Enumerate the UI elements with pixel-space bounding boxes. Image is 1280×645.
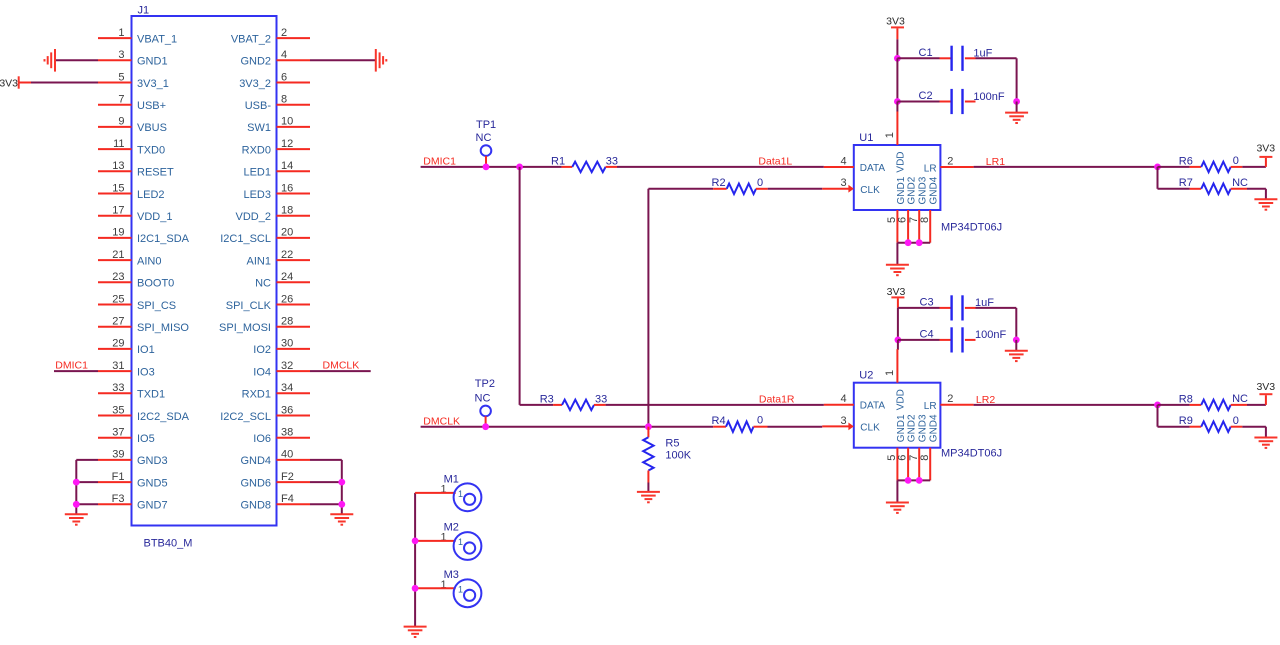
wire left ground vertical — [75, 460, 77, 514]
ground (right of C4) — [1005, 350, 1028, 352]
svg-text:24: 24 — [281, 271, 293, 283]
J1 pin 28 (SPI_MOSI) — [277, 326, 311, 328]
wire C3/C4 right vertical — [1015, 308, 1017, 340]
junction (LR2 branch) — [1154, 402, 1161, 409]
J1 pin 8 (USB-) — [277, 104, 311, 106]
svg-text:1: 1 — [884, 370, 896, 376]
svg-text:35: 35 — [112, 404, 124, 416]
svg-text:VDD: VDD — [895, 151, 906, 172]
svg-text:VDD_2: VDD_2 — [236, 211, 271, 223]
wire DMIC1 branch vertical — [519, 167, 521, 405]
wire C2 junction to ground — [1016, 102, 1018, 113]
J1 pin 1 (VBAT_1) — [98, 37, 132, 39]
svg-text:33: 33 — [595, 393, 607, 405]
svg-text:BTB40_M: BTB40_M — [144, 538, 193, 550]
J1 pin 13 (RESET) — [98, 170, 132, 172]
U1 pin 6 (GND2) stub — [907, 210, 909, 243]
junction (M3) — [412, 585, 419, 592]
svg-text:3V3: 3V3 — [1256, 143, 1275, 155]
svg-text:MP34DT06J: MP34DT06J — [941, 221, 1002, 233]
svg-text:0: 0 — [1233, 415, 1239, 427]
svg-text:NC: NC — [255, 278, 271, 290]
junction (LR1 branch) — [1154, 164, 1161, 171]
U1 pin 4 (DATA) stub — [824, 166, 854, 168]
svg-text:R8: R8 — [1179, 393, 1193, 405]
svg-text:GND2: GND2 — [907, 176, 918, 204]
U1 pin 7 (GND3) stub — [918, 210, 920, 243]
svg-text:DMIC1: DMIC1 — [55, 360, 88, 372]
svg-text:3V3: 3V3 — [886, 15, 905, 27]
svg-text:Data1R: Data1R — [759, 394, 795, 406]
junction (C1 row) — [894, 55, 901, 62]
wire LR1 branch down — [1157, 167, 1159, 189]
wire R3 to U2 DATA — [606, 404, 824, 406]
svg-text:3: 3 — [118, 49, 124, 61]
svg-text:GND1: GND1 — [137, 56, 168, 68]
wire GND7 row to left vertical — [76, 503, 98, 505]
junction (M2) — [412, 538, 419, 545]
svg-text:32: 32 — [281, 360, 293, 372]
J1 pin 24 (NC) — [277, 281, 311, 283]
U2 pin 5 (GND1) stub — [896, 448, 898, 481]
svg-text:16: 16 — [281, 182, 293, 194]
wire U2 ground bus — [897, 479, 930, 481]
svg-text:4: 4 — [840, 393, 846, 405]
svg-text:RXD0: RXD0 — [242, 144, 271, 156]
svg-text:TXD1: TXD1 — [137, 389, 165, 401]
svg-text:AIN1: AIN1 — [247, 255, 271, 267]
svg-text:37: 37 — [112, 427, 124, 439]
svg-text:3: 3 — [840, 415, 846, 427]
svg-text:USB+: USB+ — [137, 100, 166, 112]
svg-text:DMCLK: DMCLK — [323, 360, 360, 372]
svg-text:C2: C2 — [919, 90, 933, 102]
wire C4 row to U2 VDD — [897, 340, 899, 350]
svg-text:40: 40 — [281, 449, 293, 461]
wire 3V3 down to C1 row — [896, 39, 898, 58]
junction (C2 right) — [1013, 98, 1020, 105]
svg-text:36: 36 — [281, 404, 293, 416]
junction (DMIC1 branch) — [516, 164, 523, 171]
wire R2 to U1 CLK — [768, 188, 823, 190]
junction (GND6 row right) — [338, 479, 345, 486]
junction (GND5 row left) — [73, 479, 80, 486]
J1 pin 29 (IO1) — [98, 348, 132, 350]
svg-text:100K: 100K — [665, 450, 691, 462]
J1 pin 4 (GND2) — [277, 59, 311, 61]
wire GND8 row to right vertical — [310, 503, 342, 505]
J1 pin F2 (GND6) — [277, 481, 311, 483]
J1 pin 14 (LED1) — [277, 170, 311, 172]
wire C3 right to corner — [976, 307, 1017, 309]
J1 pin 30 (IO2) — [277, 348, 311, 350]
ground (right of C2) — [1005, 112, 1028, 114]
U1 pin 3 (CLK) stub with input arrow — [822, 188, 850, 190]
svg-text:8: 8 — [281, 94, 287, 106]
svg-text:C4: C4 — [920, 328, 934, 340]
wire C1 row to C2 row (left) — [896, 58, 898, 101]
J1 pin 36 (I2C2_SCL) — [277, 415, 311, 417]
svg-text:100nF: 100nF — [975, 329, 1006, 341]
wire R5 to ground — [647, 483, 649, 492]
svg-text:GND1: GND1 — [896, 176, 907, 204]
svg-text:15: 15 — [112, 182, 124, 194]
wire DMCLK stub at J1 pin32 — [310, 370, 371, 372]
J1 pin 20 (I2C1_SCL) — [277, 237, 311, 239]
ground (right of J1) — [375, 49, 377, 72]
J1 pin 27 (SPI_MISO) — [98, 326, 132, 328]
svg-text:F4: F4 — [281, 493, 294, 505]
svg-text:29: 29 — [112, 338, 124, 350]
ground (below mounting holes) — [404, 626, 427, 628]
svg-text:R6: R6 — [1179, 155, 1193, 167]
svg-text:GND2: GND2 — [240, 56, 271, 68]
svg-text:12: 12 — [281, 138, 293, 150]
svg-text:21: 21 — [112, 249, 124, 261]
svg-text:22: 22 — [281, 249, 293, 261]
svg-text:F3: F3 — [112, 493, 125, 505]
svg-text:MP34DT06J: MP34DT06J — [941, 447, 1002, 459]
wire R4 to U2 CLK — [768, 426, 823, 428]
wire R2 vertical (to DMCLK) — [647, 189, 649, 427]
svg-text:IO5: IO5 — [137, 433, 155, 445]
svg-text:8: 8 — [919, 455, 931, 461]
svg-text:GND4: GND4 — [240, 455, 271, 467]
svg-text:Data1L: Data1L — [758, 156, 792, 168]
svg-text:30: 30 — [281, 338, 293, 350]
svg-text:23: 23 — [112, 271, 124, 283]
svg-text:R4: R4 — [712, 415, 726, 427]
J1 pin 18 (VDD_2) — [277, 215, 311, 217]
J1 pin F3 (GND7) — [98, 503, 132, 505]
svg-text:DATA: DATA — [860, 401, 886, 412]
J1 pin 5 (3V3_1) — [98, 82, 132, 84]
J1 pin 10 (SW1) — [277, 126, 311, 128]
junction (GND7 row left) — [73, 501, 80, 508]
wire R1 to U1 DATA — [617, 166, 824, 168]
wire LR2 run — [974, 404, 1158, 406]
svg-text:J1: J1 — [138, 5, 150, 17]
svg-text:GND2: GND2 — [907, 414, 918, 442]
ground (right of R9) — [1254, 437, 1277, 439]
svg-text:1: 1 — [884, 132, 896, 138]
resistor R7 — [1158, 188, 1190, 190]
ground (below J1 left) — [65, 513, 88, 515]
U2 pin 1 (VDD) stub — [896, 349, 898, 383]
svg-text:SPI_CS: SPI_CS — [137, 300, 176, 312]
capacitor C4 — [898, 339, 940, 341]
svg-text:VBAT_2: VBAT_2 — [231, 33, 271, 45]
J1 pin 22 (AIN1) — [277, 259, 311, 261]
svg-text:DMIC1: DMIC1 — [423, 156, 456, 168]
J1 pin 19 (I2C1_SDA) — [98, 237, 132, 239]
svg-text:SPI_MISO: SPI_MISO — [137, 322, 189, 334]
svg-text:LR: LR — [924, 401, 937, 412]
svg-text:LR2: LR2 — [976, 394, 995, 406]
ground (below R5) — [637, 491, 660, 493]
svg-text:I2C1_SCL: I2C1_SCL — [220, 233, 271, 245]
svg-text:USB-: USB- — [245, 100, 272, 112]
J1 pin 40 (GND4) — [277, 459, 311, 461]
svg-text:F2: F2 — [281, 471, 294, 483]
wire DMIC1 stub at J1 pin31 — [54, 370, 98, 372]
svg-text:GND1: GND1 — [896, 414, 907, 442]
svg-text:GND4: GND4 — [929, 414, 940, 442]
wire DMIC1 run — [421, 166, 562, 168]
wire C1/C2 right vertical — [1016, 58, 1018, 101]
svg-text:LED3: LED3 — [243, 189, 271, 201]
svg-text:5: 5 — [118, 71, 124, 83]
svg-text:DMCLK: DMCLK — [423, 415, 460, 427]
junction (GND8 row right) — [338, 501, 345, 508]
junction (C2 row) — [894, 98, 901, 105]
ground (left of J1) — [54, 49, 56, 72]
J1 pin 38 (IO6) — [277, 437, 311, 439]
svg-text:C3: C3 — [920, 296, 934, 308]
svg-text:R9: R9 — [1179, 415, 1193, 427]
svg-text:SPI_MOSI: SPI_MOSI — [219, 322, 271, 334]
svg-text:13: 13 — [112, 160, 124, 172]
svg-text:NC: NC — [475, 393, 491, 405]
J1 pin 9 (VBUS) — [98, 126, 132, 128]
svg-text:39: 39 — [112, 449, 124, 461]
wire GND4 row to right vertical — [310, 459, 342, 461]
svg-text:NC: NC — [1232, 393, 1248, 405]
junction (C4 row left) — [895, 337, 902, 344]
wire 3V3 to J1 pin5 — [31, 82, 98, 84]
svg-text:SPI_CLK: SPI_CLK — [226, 300, 272, 312]
svg-text:NC: NC — [476, 132, 492, 144]
svg-text:R1: R1 — [551, 155, 565, 167]
ground (below U1) — [886, 264, 909, 266]
power port 3V3 (left) — [18, 76, 20, 88]
svg-text:0: 0 — [757, 177, 763, 189]
J1 pin F4 (GND8) — [277, 503, 311, 505]
svg-text:1: 1 — [458, 584, 463, 594]
svg-text:RESET: RESET — [137, 167, 174, 179]
svg-text:IO3: IO3 — [137, 366, 155, 378]
wire R6 to 3V3 — [1242, 166, 1266, 168]
svg-text:LED1: LED1 — [243, 167, 271, 179]
resistor R6 — [1158, 166, 1190, 168]
svg-text:GND4: GND4 — [929, 176, 940, 204]
svg-text:IO1: IO1 — [137, 344, 155, 356]
svg-text:LR: LR — [924, 164, 937, 175]
svg-text:26: 26 — [281, 293, 293, 305]
svg-text:2: 2 — [281, 27, 287, 39]
svg-text:IO6: IO6 — [253, 433, 271, 445]
junction (TP2) — [482, 423, 489, 430]
J1 pin 2 (VBAT_2) — [277, 37, 311, 39]
op-amp U2 (MP34DT06J microphone) body — [854, 383, 941, 448]
J1 pin 15 (LED2) — [98, 193, 132, 195]
J1 pin 6 (3V3_2) — [277, 82, 311, 84]
U2 pin 3 (CLK) stub with input arrow — [822, 425, 850, 427]
U1 pin 1 (VDD) stub — [896, 112, 898, 146]
svg-text:3V3: 3V3 — [0, 77, 18, 89]
wire GND5 row to left vertical — [76, 481, 98, 483]
wire GND1 to left ground — [55, 59, 98, 61]
svg-text:3V3_2: 3V3_2 — [239, 78, 271, 90]
wire R9 to ground — [1242, 426, 1266, 428]
wire GND3 row to left vertical — [76, 459, 98, 461]
capacitor C3 — [898, 307, 940, 309]
resistor R5 (vertical) — [647, 427, 649, 438]
svg-text:GND8: GND8 — [240, 500, 271, 512]
svg-text:GND7: GND7 — [137, 500, 168, 512]
J1 pin 39 (GND3) — [98, 459, 132, 461]
U2 pin 2 (LR) stub — [940, 404, 973, 406]
svg-text:F1: F1 — [112, 471, 125, 483]
wire R7 to ground — [1247, 188, 1266, 190]
svg-text:0: 0 — [1233, 155, 1239, 167]
svg-text:NC: NC — [1232, 177, 1248, 189]
svg-text:U2: U2 — [859, 370, 873, 382]
svg-text:I2C1_SDA: I2C1_SDA — [137, 233, 190, 245]
wire C1 right to corner — [976, 57, 1017, 59]
U1 pin 8 (GND4) stub — [929, 210, 931, 243]
J1 pin 17 (VDD_1) — [98, 215, 132, 217]
svg-text:LR1: LR1 — [986, 156, 1005, 168]
junction (R5 tap) — [645, 423, 652, 430]
J1 pin 7 (USB+) — [98, 104, 132, 106]
wire R2 row from vertical — [648, 188, 713, 190]
svg-text:3V3_1: 3V3_1 — [137, 78, 169, 90]
wire U1 ground drop — [896, 243, 898, 265]
svg-text:RXD1: RXD1 — [242, 389, 271, 401]
J1 pin 37 (IO5) — [98, 437, 132, 439]
svg-text:R7: R7 — [1179, 177, 1193, 189]
svg-text:34: 34 — [281, 382, 293, 394]
J1 pin 26 (SPI_CLK) — [277, 304, 311, 306]
svg-text:31: 31 — [112, 360, 124, 372]
wire GND2 to right ground — [310, 59, 376, 61]
U1 pin 2 (LR) stub — [940, 166, 973, 168]
wire R8 to 3V3 — [1247, 404, 1266, 406]
junction (C4 right) — [1013, 337, 1020, 344]
svg-text:R2: R2 — [712, 177, 726, 189]
svg-text:GND3: GND3 — [137, 455, 168, 467]
U1 pin 5 (GND1) stub — [896, 210, 898, 243]
svg-text:TP1: TP1 — [476, 119, 496, 131]
svg-text:11: 11 — [113, 138, 124, 150]
svg-text:4: 4 — [840, 155, 846, 167]
capacitor C2 — [897, 101, 939, 103]
wire LR2 branch down — [1157, 405, 1159, 427]
svg-text:TP2: TP2 — [475, 378, 495, 390]
svg-text:14: 14 — [281, 160, 293, 172]
wire C2 row to U1 VDD — [896, 102, 898, 112]
J1 pin 25 (SPI_CS) — [98, 304, 132, 306]
svg-text:18: 18 — [281, 205, 293, 217]
svg-text:GND5: GND5 — [137, 477, 168, 489]
svg-text:CLK: CLK — [860, 185, 880, 196]
J1 pin 31 (IO3) — [98, 370, 132, 372]
wire GND6 row to right vertical — [310, 481, 342, 483]
U2 pin 8 (GND4) stub — [929, 448, 931, 481]
svg-text:20: 20 — [281, 227, 293, 239]
J1 pin F1 (GND5) — [98, 481, 132, 483]
wire C4 junction to ground — [1015, 340, 1017, 351]
svg-text:GND6: GND6 — [240, 477, 271, 489]
wire U1 ground bus — [897, 242, 930, 244]
svg-text:CLK: CLK — [860, 423, 880, 434]
ground (below U2) — [886, 502, 909, 504]
svg-text:0: 0 — [757, 415, 763, 427]
svg-text:BOOT0: BOOT0 — [137, 278, 174, 290]
wire C3 row to C4 row (left) — [897, 308, 899, 340]
U2 pin 4 (DATA) stub — [824, 404, 854, 406]
U2 pin 6 (GND2) stub — [907, 448, 909, 481]
svg-text:1: 1 — [458, 537, 463, 547]
svg-text:33: 33 — [606, 155, 618, 167]
J1 pin 11 (TXD0) — [98, 148, 132, 150]
svg-text:10: 10 — [281, 116, 293, 128]
svg-text:LED2: LED2 — [137, 189, 165, 201]
J1 pin 33 (TXD1) — [98, 392, 132, 394]
svg-text:3: 3 — [840, 177, 846, 189]
junction (U2 GND2) — [905, 477, 912, 484]
wire DMIC1 branch to R3 — [520, 404, 554, 406]
J1 pin 34 (RXD1) — [277, 392, 311, 394]
wire LR1 run — [974, 166, 1158, 168]
svg-text:R5: R5 — [665, 438, 679, 450]
svg-text:AIN0: AIN0 — [137, 255, 161, 267]
svg-text:38: 38 — [281, 427, 293, 439]
junction (U2 GND3) — [916, 477, 923, 484]
wire DMCLK run — [421, 426, 714, 428]
J1 pin 32 (IO4) — [277, 370, 311, 372]
resistor R8 — [1158, 404, 1190, 406]
svg-text:VBAT_1: VBAT_1 — [137, 33, 177, 45]
svg-text:DATA: DATA — [860, 163, 886, 174]
svg-text:33: 33 — [112, 382, 124, 394]
wire mounting-hole vertical — [414, 493, 416, 627]
svg-text:2: 2 — [947, 393, 953, 405]
connector J1 body — [132, 16, 277, 526]
svg-text:U1: U1 — [859, 132, 873, 144]
svg-text:IO2: IO2 — [253, 344, 271, 356]
svg-text:SW1: SW1 — [247, 122, 271, 134]
svg-text:4: 4 — [281, 49, 287, 61]
svg-text:2: 2 — [947, 155, 953, 167]
J1 pin 3 (GND1) — [98, 59, 132, 61]
ground (right of R7) — [1254, 198, 1277, 200]
svg-text:I2C2_SCL: I2C2_SCL — [220, 411, 271, 423]
J1 pin 16 (LED3) — [277, 193, 311, 195]
svg-text:1: 1 — [458, 489, 463, 499]
U2 pin 7 (GND3) stub — [918, 448, 920, 481]
svg-text:VDD: VDD — [895, 389, 906, 410]
resistor R9 — [1158, 426, 1190, 428]
ground (below J1 right) — [330, 513, 353, 515]
svg-text:9: 9 — [118, 116, 124, 128]
svg-text:17: 17 — [112, 205, 124, 217]
svg-text:6: 6 — [281, 71, 287, 83]
svg-text:VBUS: VBUS — [137, 122, 167, 134]
svg-text:C1: C1 — [919, 47, 933, 59]
op-amp U1 (MP34DT06J microphone) body — [854, 145, 941, 210]
svg-text:R3: R3 — [540, 393, 554, 405]
svg-text:I2C2_SDA: I2C2_SDA — [137, 411, 190, 423]
junction (U1 GND2) — [905, 239, 912, 246]
svg-text:27: 27 — [112, 316, 124, 328]
wire U2 ground drop — [896, 480, 898, 502]
svg-text:VDD_1: VDD_1 — [137, 211, 172, 223]
wire right ground vertical — [341, 460, 343, 514]
svg-text:GND3: GND3 — [918, 176, 929, 204]
capacitor C1 — [897, 57, 939, 59]
